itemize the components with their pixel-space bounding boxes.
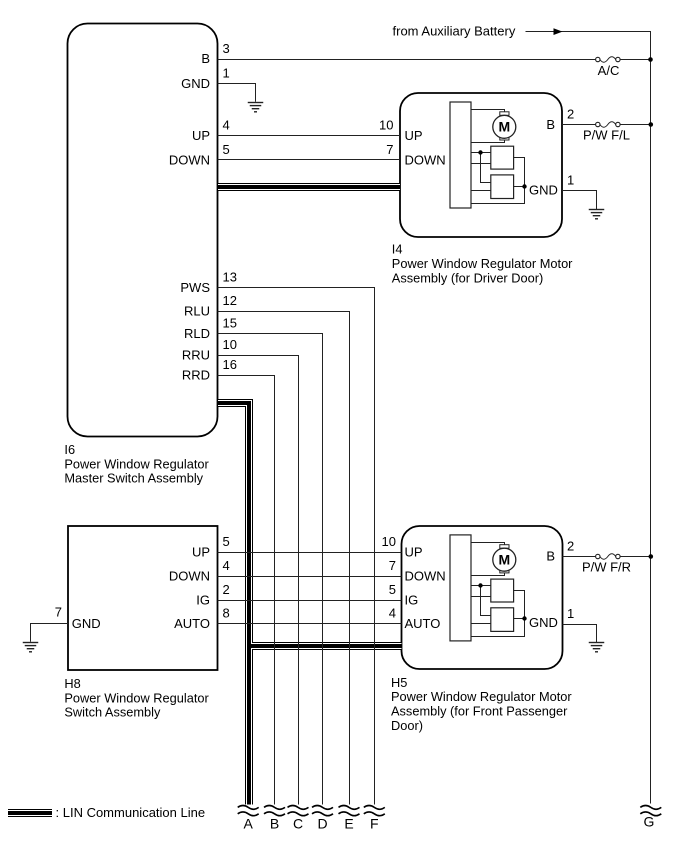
svg-text:AUTO: AUTO [405, 616, 441, 631]
svg-text:2: 2 [223, 582, 230, 597]
svg-text:5: 5 [389, 582, 396, 597]
svg-text:IG: IG [196, 593, 210, 608]
svg-text:7: 7 [389, 558, 396, 573]
svg-text:RLD: RLD [184, 326, 210, 341]
svg-text:GND: GND [72, 616, 101, 631]
svg-text:5: 5 [223, 534, 230, 549]
svg-text:H8: H8 [64, 676, 80, 691]
svg-text:DOWN: DOWN [405, 152, 446, 167]
svg-text:GND: GND [529, 182, 558, 197]
svg-text:I6: I6 [64, 442, 75, 457]
svg-text:G: G [644, 813, 655, 829]
svg-text:DOWN: DOWN [169, 569, 210, 584]
svg-text:2: 2 [567, 539, 574, 554]
svg-text:7: 7 [386, 142, 393, 157]
svg-text:B: B [546, 549, 555, 564]
svg-text:Master Switch Assembly: Master Switch Assembly [64, 470, 203, 485]
svg-text:Power Window Regulator Motor: Power Window Regulator Motor [392, 256, 573, 271]
svg-text:P/W F/R: P/W F/R [582, 559, 631, 574]
svg-text:Switch Assembly: Switch Assembly [64, 705, 161, 720]
svg-text:1: 1 [567, 173, 574, 188]
svg-text:: LIN Communication Line: : LIN Communication Line [56, 805, 206, 820]
svg-text:4: 4 [389, 605, 396, 620]
svg-text:Door): Door) [391, 718, 423, 733]
svg-text:A/C: A/C [598, 63, 620, 78]
svg-text:5: 5 [223, 142, 230, 157]
svg-text:M: M [498, 118, 510, 134]
svg-text:RRU: RRU [182, 348, 210, 363]
svg-text:1: 1 [223, 65, 230, 80]
svg-text:15: 15 [223, 315, 237, 330]
svg-text:Power Window Regulator: Power Window Regulator [64, 690, 209, 705]
svg-text:UP: UP [405, 545, 423, 560]
svg-text:A: A [244, 815, 254, 831]
svg-text:PWS: PWS [180, 280, 210, 295]
svg-text:10: 10 [223, 337, 237, 352]
svg-text:B: B [270, 815, 279, 831]
svg-text:13: 13 [223, 270, 237, 285]
svg-text:Power Window Regulator: Power Window Regulator [64, 456, 209, 471]
svg-text:RLU: RLU [184, 304, 210, 319]
svg-text:DOWN: DOWN [169, 152, 210, 167]
svg-text:2: 2 [567, 106, 574, 121]
svg-text:UP: UP [405, 128, 423, 143]
svg-text:DOWN: DOWN [405, 569, 446, 584]
svg-text:10: 10 [379, 118, 393, 133]
svg-text:8: 8 [223, 605, 230, 620]
svg-text:from Auxiliary Battery: from Auxiliary Battery [393, 24, 516, 39]
svg-text:7: 7 [55, 605, 62, 620]
svg-text:4: 4 [223, 118, 230, 133]
svg-text:F: F [370, 815, 379, 831]
svg-text:P/W F/L: P/W F/L [583, 127, 630, 142]
svg-text:I4: I4 [392, 242, 403, 257]
svg-text:3: 3 [223, 41, 230, 56]
svg-text:12: 12 [223, 293, 237, 308]
svg-text:GND: GND [529, 615, 558, 630]
svg-text:16: 16 [223, 357, 237, 372]
svg-text:Assembly (for Front Passenger: Assembly (for Front Passenger [391, 704, 568, 719]
svg-text:RRD: RRD [182, 368, 210, 383]
svg-text:B: B [546, 117, 555, 132]
svg-text:4: 4 [223, 558, 230, 573]
svg-text:E: E [344, 815, 353, 831]
svg-text:C: C [293, 815, 303, 831]
svg-text:M: M [498, 551, 510, 567]
svg-text:1: 1 [567, 606, 574, 621]
svg-text:GND: GND [181, 76, 210, 91]
svg-text:10: 10 [382, 534, 396, 549]
svg-text:H5: H5 [391, 675, 407, 690]
svg-text:Assembly (for Driver Door): Assembly (for Driver Door) [392, 270, 543, 285]
svg-text:AUTO: AUTO [174, 616, 210, 631]
svg-text:B: B [201, 51, 210, 66]
svg-text:UP: UP [192, 545, 210, 560]
svg-text:IG: IG [405, 593, 419, 608]
svg-text:UP: UP [192, 128, 210, 143]
svg-text:D: D [317, 815, 327, 831]
svg-text:Power Window Regulator Motor: Power Window Regulator Motor [391, 689, 572, 704]
